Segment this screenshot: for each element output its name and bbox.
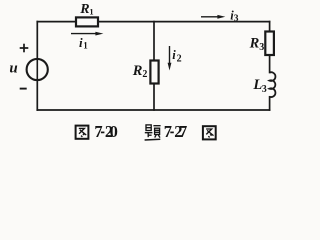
svg-text:7: 7 [164, 122, 172, 141]
svg-text:R: R [249, 35, 260, 51]
svg-text:3: 3 [234, 14, 239, 24]
svg-text:27: 27 [174, 122, 187, 141]
svg-text:3: 3 [259, 42, 264, 53]
wire right branch mid [269, 55, 271, 73]
current arrow i2 [168, 46, 172, 71]
wire top mid-right segment [98, 21, 270, 23]
caption hanzi tu (figure) second: 图 [203, 126, 216, 139]
minus sign of source [20, 88, 27, 90]
svg-text:2: 2 [142, 69, 147, 80]
wire middle branch top [153, 22, 155, 61]
svg-text:R: R [79, 2, 89, 17]
caption hanzi ti (problem): 题 [145, 125, 161, 140]
resistor R2 body [150, 61, 158, 84]
svg-text:7: 7 [94, 122, 102, 141]
svg-text:2: 2 [177, 54, 182, 65]
svg-text:3: 3 [262, 84, 267, 95]
voltage source u (circle) [27, 59, 48, 80]
svg-text:20: 20 [105, 122, 118, 141]
voltage source internal vertical line [36, 59, 38, 80]
wire right branch bottom [269, 97, 271, 110]
svg-text:u: u [9, 60, 17, 76]
current arrow i1 [71, 32, 103, 36]
wire right branch top [269, 22, 271, 32]
svg-text:i: i [172, 48, 176, 62]
svg-text:R: R [132, 63, 143, 79]
svg-text:1: 1 [83, 41, 88, 51]
wire middle branch bottom [153, 84, 155, 111]
caption hanzi tu (figure) first: 图 [76, 126, 89, 139]
plus sign of source [20, 44, 29, 53]
wire top-left segment [37, 21, 76, 23]
svg-text:1: 1 [89, 7, 93, 17]
current arrow i3 [201, 15, 225, 19]
inductor L3 coil [269, 72, 275, 97]
wire left branch [36, 22, 38, 110]
resistor R3 body [265, 32, 274, 56]
wire bottom [37, 109, 269, 111]
resistor R1 body [76, 17, 98, 26]
